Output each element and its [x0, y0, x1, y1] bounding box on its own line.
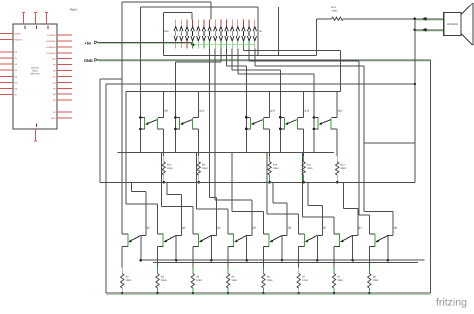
- svg-text:10kΩ: 10kΩ: [273, 167, 279, 170]
- svg-text:10kΩ: 10kΩ: [267, 279, 273, 282]
- svg-text:3V3/VREF: 3V3/VREF: [46, 40, 56, 43]
- svg-text:Q10: Q10: [200, 110, 205, 113]
- svg-text:Q6: Q6: [288, 227, 292, 230]
- svg-text:10kΩ: 10kΩ: [202, 167, 208, 170]
- svg-text:GND: GND: [51, 117, 56, 120]
- svg-text:220Ω: 220Ω: [332, 9, 338, 12]
- svg-text:D13/SCK: D13/SCK: [47, 34, 56, 37]
- svg-text:SPEAKER: SPEAKER: [447, 23, 458, 26]
- svg-text:Arduino: Arduino: [31, 67, 40, 70]
- svg-text:Q2: Q2: [147, 227, 151, 230]
- svg-text:RESET: RESET: [15, 33, 22, 36]
- svg-text:10kΩ: 10kΩ: [340, 167, 346, 170]
- svg-text:D12/MISO: D12/MISO: [46, 46, 56, 49]
- svg-text:Q7: Q7: [323, 227, 327, 230]
- svg-text:Q13: Q13: [304, 110, 309, 113]
- svg-text:10kΩ: 10kΩ: [373, 279, 379, 282]
- svg-text:10kΩ: 10kΩ: [126, 279, 132, 282]
- svg-text:D16: D16: [164, 30, 169, 33]
- svg-text:fritzing: fritzing: [436, 297, 467, 309]
- svg-text:10kΩ: 10kΩ: [196, 279, 202, 282]
- svg-text:Nano: Nano: [32, 70, 38, 73]
- svg-text:+5v: +5v: [85, 40, 92, 45]
- svg-text:Part1: Part1: [70, 7, 77, 11]
- svg-text:D11/MOSI: D11/MOSI: [46, 52, 56, 55]
- svg-text:10kΩ: 10kΩ: [167, 167, 173, 170]
- svg-text:Q12: Q12: [338, 110, 343, 113]
- svg-text:10kΩ: 10kΩ: [302, 279, 308, 282]
- svg-text:GND: GND: [84, 58, 93, 63]
- svg-text:(Rev3.0): (Rev3.0): [31, 73, 40, 76]
- svg-text:RESET2: RESET2: [15, 39, 24, 42]
- svg-text:Q11: Q11: [270, 110, 275, 113]
- svg-text:10kΩ: 10kΩ: [161, 279, 167, 282]
- svg-text:10kΩ: 10kΩ: [307, 167, 313, 170]
- svg-text:10kΩ: 10kΩ: [337, 279, 343, 282]
- svg-text:10kΩ: 10kΩ: [232, 279, 238, 282]
